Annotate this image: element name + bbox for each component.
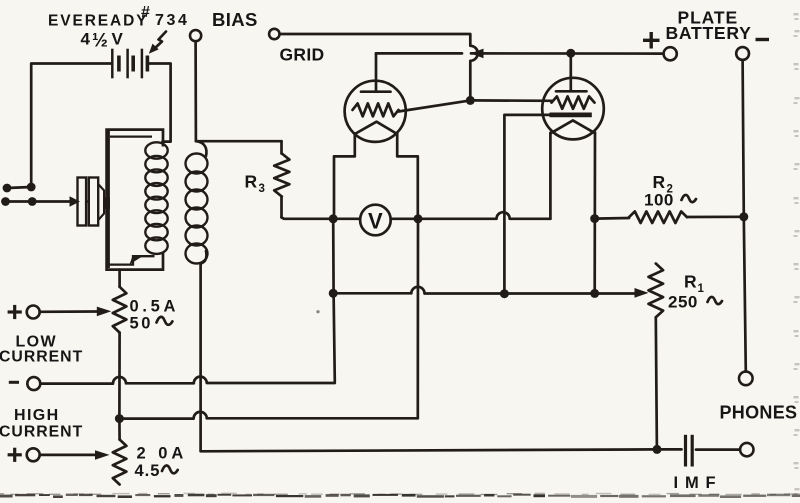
wire battery left to switch contacts: [31, 64, 111, 188]
junction grid node: [466, 96, 475, 105]
secondary winding of transformer T1: [186, 141, 208, 263]
triode V1 envelope: [345, 81, 406, 142]
V1 filament right leg to rail: [397, 134, 418, 219]
terminal BIAS: [190, 30, 201, 41]
junction bottom wire / R1 bottom: [653, 445, 662, 454]
wire high-current junction to right-leg vertical, hops secondary return: [119, 412, 417, 419]
svg-text:4.5: 4.5: [135, 462, 161, 480]
svg-text:250: 250: [668, 293, 698, 312]
wire coil box bottom to 0.5A resistor: [118, 270, 121, 287]
resistor 2.0A 4.5 ohm: [113, 419, 127, 485]
capacitor C1 1MF: [657, 435, 740, 467]
junction rail / left tube right leg: [414, 214, 423, 223]
svg-text:#: #: [141, 4, 150, 21]
wire grid node to V2 grid: [470, 99, 551, 102]
label 1MF: [674, 474, 716, 492]
svg-text:100: 100: [644, 191, 674, 210]
label R3: [245, 172, 265, 196]
V2 filament right leg down to wiper line: [593, 133, 596, 294]
label + (low current): [8, 305, 22, 319]
arrow high current + to 2.0A resistor: [40, 450, 110, 460]
label 4 1/2 V: [81, 30, 124, 52]
junction battery-wire / upper stub: [27, 183, 36, 192]
wire lower stub to microphone: [32, 200, 73, 203]
carbon microphone button MIC: [70, 178, 111, 226]
junction high-current line / resistor chain: [115, 414, 124, 423]
V2 plate bar: [550, 113, 592, 118]
svg-text:50: 50: [130, 315, 154, 333]
junction wiper line / V2 right leg: [590, 289, 599, 298]
V2 top electrode bar: [556, 90, 587, 93]
resistor R2: [595, 211, 744, 223]
rheostat R1: [649, 264, 664, 450]
svg-text:1: 1: [698, 283, 705, 295]
terminal phones lower: [740, 443, 753, 456]
terminal LOW current -: [27, 377, 40, 390]
arrowhead at R1 wiper: [635, 288, 649, 298]
wire BIAS terminal down to secondary top: [194, 41, 197, 141]
svg-text:3: 3: [259, 183, 265, 195]
svg-text:PHONES: PHONES: [720, 403, 798, 423]
svg-text:CURRENT: CURRENT: [0, 424, 83, 441]
svg-text:I: I: [674, 474, 679, 492]
svg-text:BIAS: BIAS: [212, 9, 258, 30]
wire secondary top to R3: [196, 140, 282, 143]
wire V1 grid to grid node: [399, 100, 471, 111]
svg-text:BATTERY: BATTERY: [666, 23, 752, 43]
wire GRID terminal to grid node, hops over plate wire: [280, 34, 478, 100]
junction wiper line / left leg: [329, 289, 338, 298]
wire battery right to primary top: [149, 64, 171, 142]
label 50 ohms: [130, 315, 173, 333]
svg-text:GRID: GRID: [280, 45, 325, 65]
svg-text:R: R: [684, 272, 697, 292]
plate supply wire from V1 plate to + terminal: [376, 52, 663, 55]
svg-text:½: ½: [92, 31, 108, 52]
scan artifact speck: [316, 310, 319, 313]
wire - terminal to left filament leg, hops over two verticals: [40, 377, 335, 384]
wire 0.5A resistor down to high-current junction: [118, 333, 121, 419]
resistor R3: [274, 141, 289, 217]
pointer arrow from label to battery: [149, 32, 166, 54]
junction lower stub: [28, 197, 37, 206]
junction rail / left tube left leg: [329, 214, 338, 223]
V1 grid zigzag: [353, 103, 399, 116]
wiper wire to R1 with hop, from left-leg junction: [333, 287, 636, 294]
label R2: [653, 172, 673, 196]
terminal phones upper: [739, 372, 753, 386]
label 100 ohms: [644, 191, 696, 210]
voltmeter V: [360, 205, 391, 236]
terminal LOW current +: [27, 306, 40, 319]
svg-text:EVEREADY: EVEREADY: [48, 13, 148, 30]
V1 filament: [355, 122, 397, 134]
svg-text:4: 4: [81, 30, 91, 49]
terminal GRID: [269, 29, 279, 39]
svg-text:0.5A: 0.5A: [130, 298, 180, 316]
primary winding of induction coil T1: [145, 142, 167, 254]
battery B1 EVEREADY No.734 4.5V cells: [112, 49, 147, 79]
arrow low current + to 0.5A resistor: [40, 307, 112, 317]
induction coil case (box): [107, 130, 163, 270]
terminal plate battery -: [736, 47, 749, 60]
label + (plate battery): [643, 32, 660, 49]
svg-text:2 0A: 2 0A: [137, 445, 188, 463]
label - (low current): [9, 381, 19, 384]
scan artifact streak bottom edge: [0, 493, 800, 499]
junction plate wire / V2 top cap wire: [566, 49, 575, 58]
svg-text:734: 734: [155, 12, 190, 29]
scan artifact dashes right edge: [794, 13, 800, 495]
vibrator contact step inside coil box: [107, 255, 155, 264]
wire filament rail from R3 to right tube leg, hops over plate-drop wire: [282, 212, 551, 219]
tetrode V2 envelope: [542, 78, 604, 140]
V2 filament: [550, 120, 595, 133]
wire secondary bottom down and right to 1MF capacitor: [201, 264, 657, 452]
label R1: [684, 272, 705, 296]
svg-text:CURRENT: CURRENT: [0, 349, 83, 366]
svg-text:V: V: [112, 30, 124, 49]
terminal HIGH current +: [27, 448, 40, 461]
label 4.5 ohms: [135, 462, 178, 480]
switch contact stub lower (to microphone): [1, 197, 32, 206]
V1 filament left leg to rail: [334, 134, 355, 219]
wire left tube right leg down to high-current line: [416, 219, 419, 418]
junction V2 right leg / R2 wire: [590, 214, 599, 223]
label EVEREADY #734: [48, 4, 190, 30]
svg-text:M: M: [685, 474, 699, 492]
V2 filament left leg to rail: [549, 133, 552, 219]
junction wiper line / V2 plate wire: [500, 289, 509, 298]
V2 grid zigzag: [552, 96, 595, 108]
arrowhead on plate wire at grid-wire crossing: [471, 49, 484, 59]
label - (plate battery): [756, 38, 770, 41]
label 250 ohms: [668, 293, 722, 312]
V1 plate bar and lead: [361, 53, 391, 91]
svg-text:F: F: [706, 474, 716, 492]
junction R2 / negative battery wire: [739, 212, 748, 221]
svg-text:R: R: [245, 172, 258, 192]
svg-text:R: R: [653, 172, 666, 192]
switch contact stub upper: [3, 184, 32, 193]
svg-text:V: V: [368, 208, 383, 233]
resistor 0.5A 50 ohm: [113, 287, 127, 333]
label + (high current): [8, 448, 22, 462]
wire V2 top cap: [569, 53, 572, 91]
wire - terminal down to phones terminal: [743, 60, 746, 372]
wire left filament leg down to LOW - line: [333, 219, 335, 382]
wire V2 plate out to left and down to R1 wiper line: [504, 115, 549, 294]
terminal plate battery +: [664, 47, 677, 60]
svg-text:HIGH: HIGH: [14, 407, 60, 424]
